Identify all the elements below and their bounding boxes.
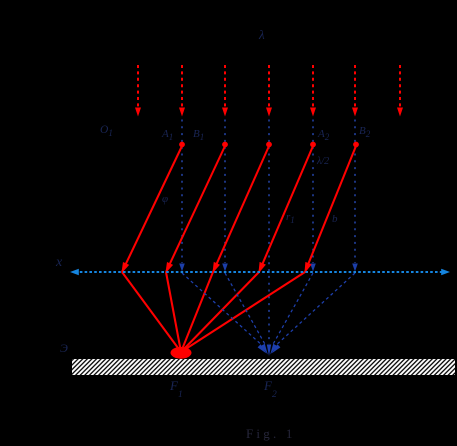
scatterer dot 3: [266, 142, 272, 148]
incident plane-wave arrow 3: [222, 65, 228, 117]
svg-text:x: x: [55, 255, 63, 270]
horizontal x-axis (dashed, double-headed): [70, 269, 450, 275]
red ray 5 upper segment: [304, 146, 356, 273]
incident plane-wave arrow 5: [310, 65, 316, 117]
incident plane-wave arrow 6: [352, 65, 358, 117]
incident plane-wave arrow 7: [397, 65, 403, 117]
red ray 3 upper segment: [212, 146, 269, 273]
red ray 2 upper segment: [165, 146, 225, 273]
screen (hatched bar): [72, 359, 455, 375]
blue focus crow's foot: [258, 344, 281, 356]
svg-text:λ/2: λ/2: [316, 156, 329, 167]
svg-text:b: b: [332, 213, 338, 225]
blue dashed construction line from 225 to virtual focus: [225, 273, 266, 346]
red ray 1 refracted segment: [122, 272, 181, 352]
scatterer dot 1: [179, 142, 185, 148]
red ray 4 upper segment: [258, 146, 313, 273]
dashed vertical line at 355: [352, 120, 358, 272]
red ray 2 refracted segment: [166, 272, 181, 352]
scatterer dot 4: [310, 142, 316, 148]
scatterer dot 2: [222, 142, 228, 148]
svg-text:λ: λ: [258, 27, 265, 42]
svg-text:Fig. 1: Fig. 1: [246, 426, 296, 441]
red ray 4 refracted segment: [181, 272, 259, 352]
incident plane-wave arrow 1: [135, 65, 141, 117]
dashed vertical line at 182: [179, 120, 185, 272]
red focal blob: [171, 347, 192, 359]
red ray 1 upper segment: [121, 146, 182, 273]
blue dashed construction line from 355 to virtual focus: [274, 273, 355, 347]
svg-text:φ: φ: [162, 193, 168, 205]
red ray 5 refracted segment: [181, 272, 305, 352]
incident plane-wave arrow 4: [266, 65, 272, 117]
blue dashed construction line from 182 to virtual focus: [182, 273, 264, 347]
dashed vertical line at 269 (continues to blue focus): [268, 120, 270, 345]
scatterer dot 5: [353, 142, 359, 148]
dashed vertical line at 225: [222, 120, 228, 272]
incident plane-wave arrow 2: [179, 65, 185, 117]
red ray 3 refracted segment: [181, 272, 213, 352]
svg-text:Э: Э: [60, 341, 68, 355]
dashed vertical line at 313: [310, 120, 316, 272]
blue dashed construction line from 313 to virtual focus: [272, 273, 313, 346]
